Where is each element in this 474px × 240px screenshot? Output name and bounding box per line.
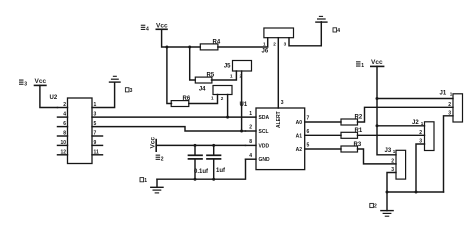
wire GND rail (right) <box>387 191 444 193</box>
wire J2 pin3 to GND rail <box>416 144 425 192</box>
resistor R2 <box>341 115 363 125</box>
net flag 2 (bottom Vcc) <box>156 155 164 163</box>
capacitor C1 0.1uf <box>189 145 210 179</box>
wire ground stem <box>386 192 388 211</box>
svg-text:7: 7 <box>307 116 310 122</box>
svg-text:Vcc: Vcc <box>371 59 383 66</box>
U2 pin 11 stub <box>92 154 103 156</box>
ground flag 3 label <box>125 88 132 94</box>
svg-text:A2: A2 <box>296 147 303 153</box>
svg-text:Vcc: Vcc <box>156 22 168 29</box>
U2 pin 12 stub <box>58 154 68 156</box>
junction SCL / J5 pin2 <box>240 130 243 133</box>
svg-text:2: 2 <box>249 125 252 131</box>
wire R6 to J4 pin1 <box>189 95 218 104</box>
J4 pin numbers <box>211 96 224 101</box>
svg-text:10: 10 <box>60 140 66 146</box>
junction GND rail / ground stem <box>386 191 389 194</box>
svg-text:2: 2 <box>273 42 276 47</box>
svg-text:2: 2 <box>419 130 422 136</box>
wire branch to R5 <box>190 47 196 80</box>
svg-text:U2: U2 <box>50 95 58 101</box>
svg-text:1: 1 <box>230 73 233 78</box>
wire U1 A1 to R1 <box>305 134 341 136</box>
svg-text:3: 3 <box>281 100 284 106</box>
wire SCL net: U2 pin5 to U1 pin2 <box>92 127 246 131</box>
wire R4 to J6 pin1 <box>218 38 268 47</box>
wire J5 pin2 to SCL <box>241 71 243 131</box>
svg-text:1: 1 <box>211 96 214 101</box>
U2 pin 9 stub <box>92 144 103 146</box>
svg-text:R4: R4 <box>213 39 221 45</box>
svg-text:6: 6 <box>63 121 66 127</box>
ground flag 2 label <box>370 203 377 209</box>
connector J3 <box>385 148 406 179</box>
svg-text:2: 2 <box>63 102 66 108</box>
svg-text:ALERT: ALERT <box>276 111 282 128</box>
junction rail / R6 branch <box>165 46 168 49</box>
ground (flag 4) <box>316 16 327 22</box>
svg-text:2: 2 <box>221 96 224 101</box>
junction rail / R5 branch <box>188 46 191 49</box>
wire GND rail to ground <box>156 179 158 187</box>
wire SDA net: U2 pin3 to U1 pin1 <box>92 116 256 118</box>
wire VDD rail <box>156 144 245 146</box>
net flag 1 (right) <box>356 61 364 69</box>
svg-text:VDD: VDD <box>259 143 270 149</box>
svg-text:R1: R1 <box>355 128 363 134</box>
svg-text:4: 4 <box>63 112 66 118</box>
U1 pin 8 stub <box>246 144 257 146</box>
svg-text:R3: R3 <box>354 142 362 148</box>
U2 pin 8 stub <box>58 135 68 137</box>
wire U2 pin 1 to ground <box>92 83 115 108</box>
power Vcc (bottom, rotated) <box>150 137 157 152</box>
resistor R6 <box>171 96 191 106</box>
U2 pin 2 stub <box>58 107 68 109</box>
svg-text:J5: J5 <box>224 64 231 70</box>
svg-text:1: 1 <box>421 121 424 126</box>
svg-text:R2: R2 <box>355 115 363 121</box>
J6 pin numbers <box>263 42 287 47</box>
junction Vcc / J1 pin1 <box>376 97 379 100</box>
svg-text:SCL: SCL <box>259 129 269 135</box>
junction GND / C2 <box>212 178 215 181</box>
power Vcc (top) <box>156 22 168 29</box>
power Vcc (right) <box>371 59 384 66</box>
svg-text:R5: R5 <box>207 73 215 79</box>
U2 pin 6 stub <box>58 126 68 128</box>
U2 pin 4 stub <box>58 116 68 118</box>
capacitor C2 1uf <box>207 145 226 179</box>
connector J2 <box>412 120 434 150</box>
svg-text:3: 3 <box>130 88 133 94</box>
junction GND rail / J2 pin3 <box>415 191 418 194</box>
svg-text:0.1uf: 0.1uf <box>194 169 209 175</box>
wire J6 pin3 to ground <box>289 22 321 46</box>
junction SDA / J4 pin2 <box>226 116 229 119</box>
ground (flag 2) <box>381 211 393 217</box>
U1 pin 4 stub <box>246 158 257 160</box>
svg-text:8: 8 <box>63 131 66 137</box>
svg-text:2: 2 <box>391 158 394 164</box>
connector J4 <box>199 86 232 95</box>
svg-text:1: 1 <box>361 63 364 69</box>
ground (flag 1) <box>151 187 163 193</box>
wire Vcc to U2 pin 2 <box>40 85 58 107</box>
svg-text:1: 1 <box>450 91 453 96</box>
resistor R4 <box>200 39 221 50</box>
wire U1 A0 to R2 <box>305 121 341 123</box>
svg-text:R6: R6 <box>183 96 191 102</box>
svg-text:J3: J3 <box>385 148 392 154</box>
wire J3 pin3 to GND rail <box>387 173 396 193</box>
wire R2 to J1 pin2 <box>358 107 454 122</box>
svg-text:A1: A1 <box>296 133 303 139</box>
U1 pin 2 stub <box>246 130 257 132</box>
net flag 3 (left) <box>19 80 27 88</box>
svg-text:J2: J2 <box>412 120 419 126</box>
connector J1 <box>440 91 463 123</box>
net flag 4 (top) <box>141 25 149 33</box>
wire R1 to J2 pin2 <box>358 134 425 136</box>
wire Vcc to J2 pin1 <box>377 125 425 127</box>
svg-text:4: 4 <box>146 27 149 33</box>
svg-text:3: 3 <box>24 82 27 88</box>
J5 pin numbers <box>230 73 243 78</box>
wire GND rail bottom <box>157 159 246 179</box>
wire J6 pin2 to U1 ALERT <box>277 38 279 108</box>
svg-text:1uf: 1uf <box>216 168 226 174</box>
U2 left pin numbers <box>60 102 66 155</box>
svg-text:12: 12 <box>60 149 66 155</box>
svg-text:Vcc: Vcc <box>35 78 47 85</box>
svg-text:8: 8 <box>249 139 252 145</box>
svg-text:GND: GND <box>259 157 271 163</box>
U2 pin 10 stub <box>58 144 68 146</box>
junction VDD / C1 <box>194 144 197 147</box>
IC U1 <box>240 102 305 170</box>
wire U1 A2 to R3 <box>305 148 341 150</box>
wire J1 pin3 to GND rail <box>444 116 454 192</box>
svg-text:4: 4 <box>337 28 340 34</box>
junction VDD / C2 <box>212 144 215 147</box>
wire branch to R6 <box>167 47 172 104</box>
svg-text:A0: A0 <box>296 120 303 126</box>
svg-text:6: 6 <box>307 129 310 135</box>
svg-text:2: 2 <box>448 102 451 108</box>
svg-text:1: 1 <box>144 178 147 184</box>
resistor R1 <box>341 128 363 138</box>
svg-text:1: 1 <box>263 42 266 47</box>
svg-text:5: 5 <box>307 143 310 149</box>
U1 pin names <box>259 111 303 163</box>
power Vcc (left) <box>35 78 47 85</box>
svg-text:2: 2 <box>161 156 164 162</box>
svg-text:J6: J6 <box>262 49 269 55</box>
wire R5 to J5 pin1 <box>212 71 237 80</box>
junction GND / C1 <box>194 178 197 181</box>
connector J6 <box>262 28 294 55</box>
U2 right pin numbers <box>94 102 100 155</box>
svg-text:1: 1 <box>249 111 252 117</box>
svg-text:SDA: SDA <box>259 115 270 121</box>
junction Vcc / J2 pin1 <box>376 124 379 127</box>
wire Vcc stem down to J3 pin1 <box>377 66 396 154</box>
wire J4 pin2 to SDA <box>227 95 229 118</box>
svg-text:2: 2 <box>374 204 377 210</box>
wire R3 to J3 pin2 <box>358 149 397 164</box>
ground flag 1 label <box>140 178 147 184</box>
connector U2 <box>50 95 93 164</box>
svg-text:J1: J1 <box>440 91 447 97</box>
svg-text:4: 4 <box>249 153 252 159</box>
svg-text:U1: U1 <box>240 102 248 108</box>
U2 pin 7 stub <box>92 135 103 137</box>
svg-text:1: 1 <box>393 149 396 154</box>
resistor R3 <box>341 142 362 152</box>
svg-text:Vcc: Vcc <box>150 137 157 149</box>
svg-text:J4: J4 <box>199 87 206 93</box>
resistor R5 <box>195 73 215 83</box>
connector J5 <box>224 61 252 72</box>
svg-text:3: 3 <box>284 42 287 47</box>
ground flag 4 label <box>333 28 340 34</box>
ground (flag 3) <box>110 76 121 82</box>
wire Vcc stem to rail <box>162 29 201 47</box>
wire Vcc to J1 pin1 <box>377 98 453 100</box>
